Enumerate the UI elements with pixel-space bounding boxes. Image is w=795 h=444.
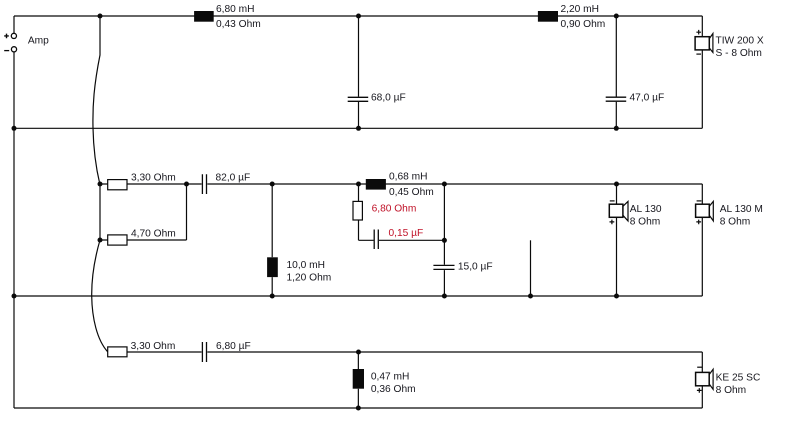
capacitor 68,0 uF: [348, 97, 369, 101]
node AL130 bottom: [614, 294, 619, 299]
capacitor 82,0 uF: [202, 174, 206, 194]
svg-text:8 Ohm: 8 Ohm: [716, 385, 747, 396]
svg-text:6,80 mH: 6,80 mH: [216, 4, 255, 15]
node tweeter shunt bottom: [356, 406, 361, 411]
capacitor 0,15 uF (red label): [374, 230, 378, 250]
resistor 3,30 Ohm (midrange): [108, 180, 127, 190]
node left rail / middle return: [12, 294, 17, 299]
wire AL130 drop: [616, 184, 618, 296]
node 68uF bottom: [356, 126, 361, 131]
node RC branch left: [356, 182, 361, 187]
wire 68uF leg: [358, 16, 360, 128]
inductor 0,47 mH: [353, 369, 364, 389]
speaker KE 25 SC: [696, 372, 710, 385]
speaker AL 130: [609, 204, 623, 217]
inductor 10,0 mH: [267, 257, 278, 277]
speaker AL 130 M: [696, 204, 710, 217]
svg-text:AL 130 M: AL 130 M: [720, 204, 763, 215]
wire midrange main: [100, 183, 702, 185]
svg-text:S - 8 Ohm: S - 8 Ohm: [716, 48, 762, 59]
wire curved feed from node A to midrange branch: [93, 16, 100, 184]
node 47uF top: [614, 14, 619, 19]
node midrange input: [98, 182, 103, 187]
resistor 6,80 Ohm (red label): [353, 201, 362, 220]
svg-text:KE 25 SC: KE 25 SC: [716, 373, 761, 384]
resistor 3,30 Ohm (tweeter): [108, 347, 127, 357]
node left rail / upper return: [12, 126, 17, 131]
node 15uF bottom: [442, 294, 447, 299]
wire middle return rail: [14, 295, 702, 297]
node RC bottom right: [442, 238, 447, 243]
wire tweeter main: [127, 351, 702, 353]
wire RC parallel branch: [359, 184, 445, 240]
node A (top feed): [98, 14, 103, 19]
svg-text:6,80 Ohm: 6,80 Ohm: [372, 204, 417, 215]
svg-text:0,47 mH: 0,47 mH: [371, 372, 410, 383]
capacitor 47,0 uF: [606, 97, 627, 101]
svg-text:0,90 Ohm: 0,90 Ohm: [561, 19, 606, 30]
svg-text:0,45 Ohm: 0,45 Ohm: [389, 187, 434, 198]
svg-text:AL 130: AL 130: [630, 204, 662, 215]
wire top main rail: [14, 15, 702, 17]
node resistor loop right: [184, 182, 189, 187]
wire AL130M drop: [701, 184, 703, 296]
node 47uF bottom: [614, 126, 619, 131]
inductor 2,20 mH: [538, 11, 558, 22]
wire left rail: [13, 16, 15, 408]
svg-text:0,36 Ohm: 0,36 Ohm: [371, 384, 416, 395]
wire upper return rail: [14, 127, 702, 129]
speaker TIW 200 XS: [695, 37, 709, 50]
wire bottom return rail: [14, 407, 702, 409]
svg-text:0,15 µF: 0,15 µF: [389, 228, 424, 239]
amp terminals: [11, 33, 16, 38]
svg-text:15,0 µF: 15,0 µF: [458, 262, 493, 273]
svg-text:0,68 mH: 0,68 mH: [389, 172, 428, 183]
resistor 4,70 Ohm: [108, 235, 127, 245]
wire TIW speaker drop: [701, 16, 703, 128]
svg-text:1,20 Ohm: 1,20 Ohm: [287, 273, 332, 284]
svg-text:Amp: Amp: [28, 36, 49, 47]
wire 47uF leg: [615, 16, 617, 128]
wire stub: [530, 240, 532, 296]
svg-text:82,0 µF: 82,0 µF: [216, 173, 251, 184]
wire curved feed to tweeter branch: [92, 240, 108, 352]
wire resistor-loop left vertical: [99, 184, 101, 240]
svg-text:6,80 µF: 6,80 µF: [216, 341, 251, 352]
wire 4,70 Ohm loop: [100, 184, 187, 240]
wire 0,47mH shunt leg: [357, 352, 359, 408]
svg-text:8 Ohm: 8 Ohm: [720, 217, 751, 228]
capacitor 6,80 uF: [202, 342, 206, 362]
inductor 0,68 mH: [366, 179, 386, 190]
svg-text:4,70 Ohm: 4,70 Ohm: [131, 229, 176, 240]
svg-text:0,43 Ohm: 0,43 Ohm: [216, 19, 261, 30]
svg-text:TIW 200 X: TIW 200 X: [716, 35, 764, 46]
svg-text:8 Ohm: 8 Ohm: [630, 217, 661, 228]
capacitor 15,0 uF: [433, 265, 454, 269]
node AL130 top: [614, 182, 619, 187]
wire KE speaker drop: [701, 352, 703, 408]
node resistor loop left bottom: [98, 238, 103, 243]
wire 15uF leg: [443, 184, 445, 296]
wire 10mH shunt leg: [271, 184, 273, 296]
svg-text:10,0 mH: 10,0 mH: [287, 260, 326, 271]
svg-text:3,30 Ohm: 3,30 Ohm: [131, 173, 176, 184]
node tweeter shunt top: [356, 350, 361, 355]
inductor 6,80 mH: [194, 11, 214, 22]
svg-text:47,0 µF: 47,0 µF: [630, 93, 665, 104]
svg-text:3,30 Ohm: 3,30 Ohm: [131, 341, 176, 352]
node RC branch right: [442, 182, 447, 187]
node stub bottom: [528, 294, 533, 299]
svg-text:2,20 mH: 2,20 mH: [561, 4, 600, 15]
svg-text:68,0 µF: 68,0 µF: [371, 93, 406, 104]
node 68uF top: [356, 14, 361, 19]
node 10mH top: [270, 182, 275, 187]
node 10mH bottom: [270, 294, 275, 299]
